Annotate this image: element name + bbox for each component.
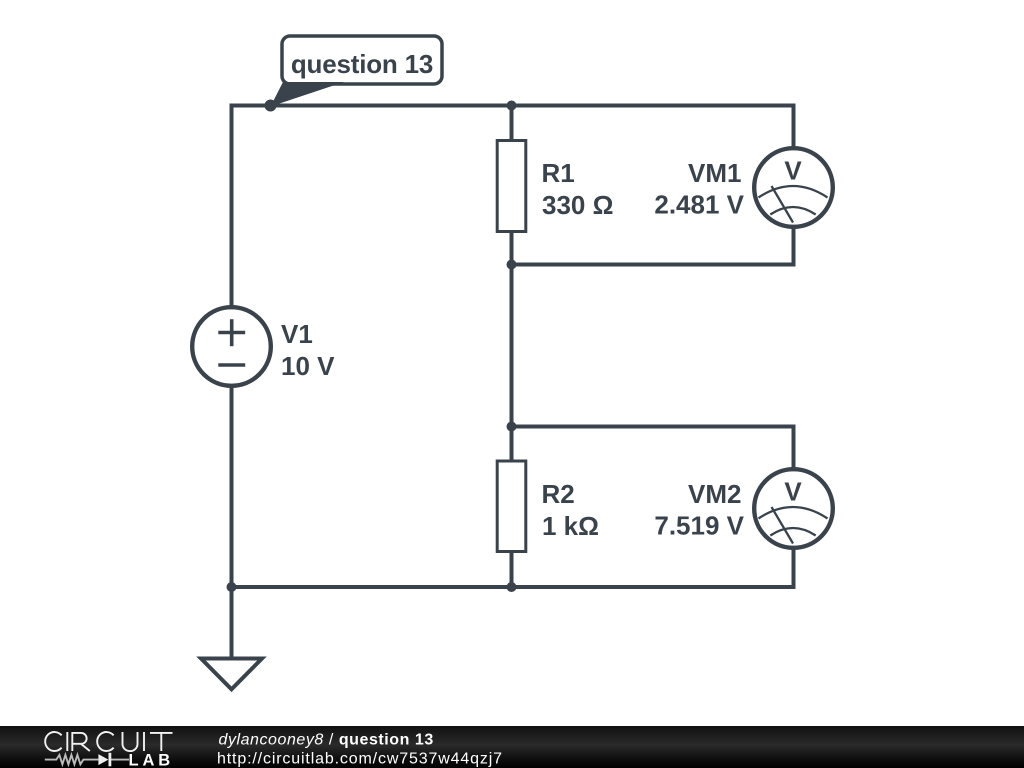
- svg-text:LAB: LAB: [129, 752, 175, 768]
- svg-text:dylancooney8 / question 13: dylancooney8 / question 13: [219, 732, 434, 749]
- svg-text:VM2: VM2: [688, 479, 741, 509]
- svg-text:V: V: [784, 477, 802, 507]
- svg-text:2.481 V: 2.481 V: [654, 190, 744, 220]
- svg-text:R2: R2: [542, 479, 575, 509]
- svg-text:R1: R1: [542, 158, 575, 188]
- svg-text:7.519 V: 7.519 V: [654, 511, 744, 541]
- svg-text:VM1: VM1: [688, 158, 741, 188]
- svg-text:330 Ω: 330 Ω: [542, 190, 613, 220]
- svg-text:question 13: question 13: [291, 49, 433, 79]
- svg-text:V: V: [784, 156, 802, 186]
- svg-text:10 V: 10 V: [281, 351, 335, 381]
- svg-text:V1: V1: [281, 319, 313, 349]
- svg-text:1 kΩ: 1 kΩ: [542, 511, 599, 541]
- svg-text:http://circuitlab.com/cw7537w4: http://circuitlab.com/cw7537w44qzj7: [217, 751, 503, 768]
